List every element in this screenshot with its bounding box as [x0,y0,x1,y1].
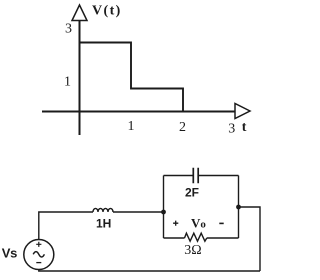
inductor L1 coil [93,208,113,212]
svg-text:2F: 2F [185,186,199,200]
label + (Vo polarity) [173,221,178,226]
voltage source - polarity mark [36,262,41,264]
wire: top side left of capacitor [164,175,193,177]
wire: left side of parallel block [163,176,165,239]
t axis arrowhead [235,104,250,119]
V axis (vertical) [79,19,81,135]
svg-text:V(t): V(t) [92,4,122,19]
V axis arrowhead [72,5,87,21]
wire: node B to right drop [239,207,261,271]
t axis (horizontal) [42,111,235,113]
voltage source Vs (AC source circle) [24,240,54,270]
capacitor C1 plates [193,168,198,183]
wire: inductor to node A [113,211,164,213]
svg-text:1: 1 [64,75,71,90]
svg-text:3Ω: 3Ω [184,243,201,258]
wire: right side of parallel block [238,176,240,239]
resistor R1 zigzag [185,233,207,241]
wire: top side right of capacitor [199,175,239,177]
label - (Vo polarity) [219,222,223,224]
svg-text:1H: 1H [96,217,111,231]
svg-text:Vo: Vo [191,216,206,231]
svg-text:1: 1 [128,119,135,134]
V(t) waveform step [80,43,184,112]
node A junction dot [161,210,166,215]
wire: bottom side left of resistor [164,237,185,239]
wire: bottom return to source [39,270,260,272]
voltage source sine symbol [33,252,44,257]
wire: bottom side right of resistor [207,237,239,239]
svg-text:t: t [242,120,247,135]
svg-text:Vs: Vs [2,246,17,261]
node B junction dot [236,205,241,210]
svg-text:3: 3 [65,22,72,37]
svg-text:2: 2 [179,120,186,135]
wire: source top up to main line [39,212,93,240]
voltage source + polarity mark [36,242,41,247]
svg-text:3: 3 [228,122,235,137]
